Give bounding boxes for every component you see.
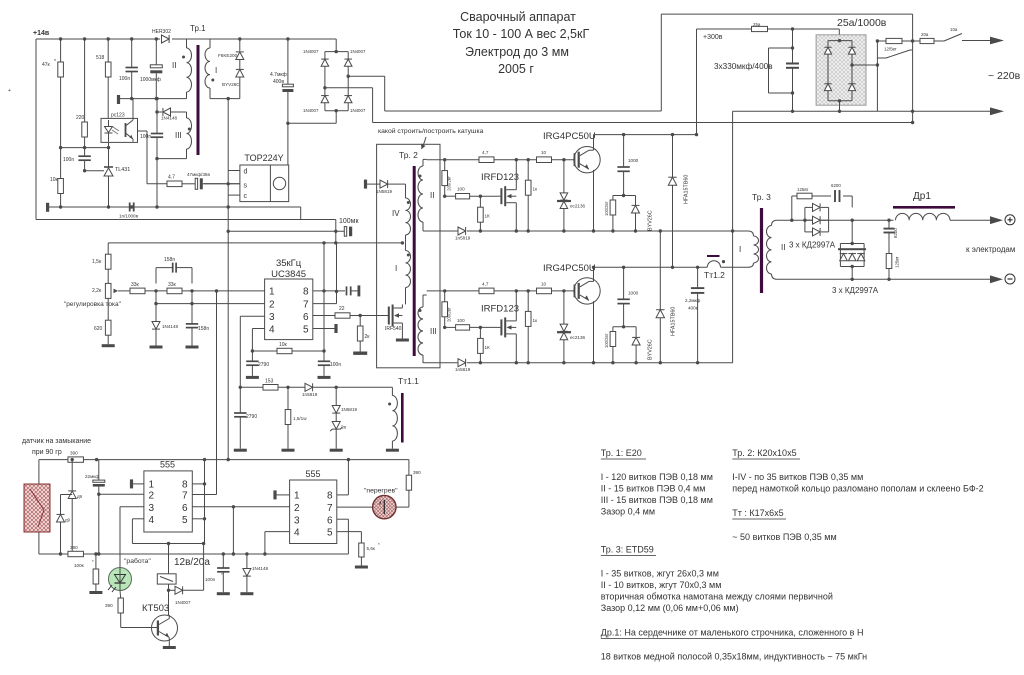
diode F6KE200 <box>218 52 244 60</box>
capacitor 330мкф plates <box>786 64 799 68</box>
inductor Др1 <box>896 213 951 220</box>
capacitor 100n 555 <box>205 568 230 582</box>
svg-text:400в: 400в <box>688 306 699 311</box>
svg-text:1n5819: 1n5819 <box>455 367 471 372</box>
ground 620 <box>102 344 115 347</box>
wire out filter <box>888 220 890 279</box>
winding Tp.2 I <box>395 243 411 305</box>
diode КД2997А 2b <box>848 254 856 261</box>
resistor 390 rail2 <box>68 545 84 557</box>
relay coil <box>157 574 176 584</box>
capacitor 100n timing <box>318 361 342 368</box>
resistor 125вт out2 <box>886 254 899 269</box>
svg-text:20а: 20а <box>921 32 929 37</box>
wire 100nt leads <box>323 351 325 376</box>
wire bridge dc minus <box>838 101 841 113</box>
resistor 200/2вт 1 <box>442 171 452 191</box>
MOSFET IRFD123 2 <box>497 317 516 337</box>
label Др1 <box>913 191 931 202</box>
capacitor 100мк <box>339 218 359 236</box>
wire LED leads <box>119 568 121 591</box>
diode HFA15TB60 a <box>668 175 689 204</box>
svg-text:25а: 25а <box>753 22 761 27</box>
bridge diode BR <box>848 84 855 91</box>
capacitor 158n b <box>186 324 210 332</box>
svg-text:Тр.1: Тр.1 <box>190 24 206 33</box>
svg-text:*: * <box>378 542 380 547</box>
svg-text:Тр. 2: Тр. 2 <box>399 150 418 160</box>
wire 1K leads 2 <box>479 327 482 364</box>
wire stage2 rail <box>423 361 733 364</box>
IC 555 a box <box>144 471 192 532</box>
resistor 518 <box>96 55 111 77</box>
svg-text:"перегрев": "перегрев" <box>364 488 398 495</box>
diode 1N4007 TR <box>344 49 366 66</box>
svg-text:400в: 400в <box>273 79 284 85</box>
svg-text:TOP224Y: TOP224Y <box>244 153 283 163</box>
wire 555a pin7 <box>192 494 216 496</box>
pin numbers UC3845 left <box>269 287 275 336</box>
bridge diode TR <box>848 47 855 54</box>
resistor 1.5/1w <box>285 410 307 425</box>
svg-text:IRFD123: IRFD123 <box>481 303 519 314</box>
diode КД2997А 1a <box>813 203 821 211</box>
wire sensor leads <box>38 460 40 554</box>
diode КД2997А 1b <box>813 216 821 224</box>
wire out plus <box>777 219 894 222</box>
ground IRF540 <box>396 339 409 342</box>
wire +300 <box>697 27 840 40</box>
bridge 25а box <box>816 35 866 105</box>
svg-text:555: 555 <box>160 460 175 470</box>
winding Tp.3 II <box>767 220 786 279</box>
wire 12/5 leads <box>877 39 914 42</box>
wire 14v drop <box>335 220 337 232</box>
resistor 200/2вт 2 <box>442 302 452 322</box>
wire tvs leads 1 <box>562 160 565 233</box>
wire gate rail 1 <box>427 158 575 161</box>
wire +14в top rail <box>36 38 336 40</box>
wire vref rail <box>108 241 404 244</box>
resistor 4.7 <box>167 175 182 187</box>
svg-text:1N4148: 1N4148 <box>252 566 269 571</box>
svg-text:3: 3 <box>294 515 300 526</box>
wire snubber <box>792 196 852 220</box>
wire top loop <box>661 14 912 122</box>
bridge internal wires <box>828 39 854 103</box>
wire opto collector <box>133 99 147 184</box>
wire 100n555 leads <box>222 554 224 592</box>
svg-text:+: + <box>8 88 11 94</box>
svg-text:100: 100 <box>457 318 465 323</box>
IGBT IRG4PC50U 2 <box>574 278 601 304</box>
wire 555a pin3 <box>120 507 144 568</box>
label при 90 гр <box>32 449 62 456</box>
svg-text:22: 22 <box>339 306 345 312</box>
svg-text:1: 1 <box>149 480 155 491</box>
svg-text:2790: 2790 <box>246 414 257 420</box>
svg-text:1n5819: 1n5819 <box>455 236 471 241</box>
svg-text:35кГц: 35кГц <box>276 258 302 269</box>
svg-text:I - 120 витков ПЭВ 0,18 мм: I - 120 витков ПЭВ 0,18 мм <box>601 472 713 482</box>
diode BYV26C top <box>222 69 244 87</box>
svg-text:47к: 47к <box>42 62 51 68</box>
svg-text:II - 10 витков, жгут 70х0,3 мм: II - 10 витков, жгут 70х0,3 мм <box>601 580 722 590</box>
capacitor 1n/1000в <box>119 203 139 219</box>
svg-text:5: 5 <box>182 515 188 526</box>
bar pin1 555b <box>273 490 289 499</box>
wire TL431 leads <box>107 148 110 209</box>
wire tp2 diode <box>366 183 403 185</box>
label +300в <box>703 34 723 41</box>
label 25а/1000в <box>837 17 887 29</box>
svg-text:1000: 1000 <box>628 291 639 296</box>
label TOP224Y <box>244 153 283 163</box>
bridge diode BL <box>824 84 831 91</box>
capacitor 100n vref <box>347 285 361 296</box>
note Тр.3 header <box>601 545 656 556</box>
wire rail to bridge <box>335 39 338 53</box>
pin numbers UC3845 right <box>303 287 309 336</box>
resistor 1К 1 <box>478 207 490 222</box>
rectifier block2 frame <box>838 244 866 267</box>
bar pin5 <box>334 324 337 333</box>
svg-text:158n: 158n <box>198 326 209 332</box>
wire fuse20 leads <box>913 40 944 42</box>
label Тт1.2 <box>704 270 725 280</box>
svg-text:10к: 10к <box>279 342 288 348</box>
wire byv a leads <box>634 196 637 233</box>
svg-text:153: 153 <box>265 379 274 385</box>
svg-text:1N4007: 1N4007 <box>303 49 319 54</box>
wire 100 leads 2 <box>445 326 497 329</box>
label к электродам <box>966 245 1015 254</box>
svg-text:1000: 1000 <box>628 158 639 163</box>
svg-text:3 х КД2997А: 3 х КД2997А <box>832 286 879 295</box>
diode КД2997А 2a <box>840 254 848 261</box>
svg-text:1N4007: 1N4007 <box>350 108 366 113</box>
label перегрев <box>364 488 398 495</box>
note dr1 line1 <box>601 652 867 662</box>
svg-text:2в: 2в <box>341 425 347 430</box>
wire 1.5k leads <box>107 243 109 283</box>
relay bypass contact <box>877 50 912 58</box>
svg-text:Тр. 2: К20х10х5: Тр. 2: К20х10х5 <box>732 448 796 458</box>
svg-text:Др1: Др1 <box>913 191 931 202</box>
capacitor 8200 <box>884 228 899 238</box>
label КТ503 <box>142 603 169 614</box>
wire 2.2мкф leads <box>697 267 699 362</box>
svg-text:1,5к: 1,5к <box>92 259 102 265</box>
svg-text:Тр. 3: Тр. 3 <box>752 192 771 202</box>
svg-text:5,6к: 5,6к <box>367 546 376 551</box>
label IRFD123 2 <box>481 303 519 314</box>
box Tp.2 <box>377 144 440 367</box>
svg-text:КТ503: КТ503 <box>142 603 169 614</box>
wire 100w b leads <box>611 327 614 365</box>
svg-text:I: I <box>395 264 397 273</box>
svg-text:IRF540: IRF540 <box>385 326 402 332</box>
capacitor 4.7мкф 400в <box>270 72 293 92</box>
wire gnd corner <box>300 207 302 220</box>
wire fb node <box>155 97 186 209</box>
MOSFET IRFD123 1 <box>497 186 516 206</box>
resistor 4.7 2 <box>479 281 494 293</box>
note Тр.1 header <box>601 448 646 459</box>
ground bar aux2 <box>46 203 49 212</box>
wire IRF540 source <box>401 323 403 339</box>
wire d9b leads <box>59 495 72 556</box>
svg-text:*: * <box>221 572 223 577</box>
wire s branch <box>147 183 240 185</box>
note tt line1 <box>732 532 836 542</box>
svg-text:100: 100 <box>457 187 465 192</box>
wire 555a pin6 <box>192 505 289 508</box>
wire 555b pin8 <box>337 460 349 495</box>
svg-text:6: 6 <box>182 503 188 514</box>
wire led res leads <box>120 591 158 628</box>
wire 1k gate leads 2 <box>527 291 530 365</box>
wire bridge4007 bottom <box>335 111 337 124</box>
ground 2790 a <box>246 376 259 379</box>
wire bridge4007 out2 <box>325 88 373 123</box>
svg-text:6: 6 <box>303 312 309 323</box>
wire 100n div leads <box>83 148 86 173</box>
svg-text:s: s <box>244 182 248 189</box>
bridge diode TL <box>824 47 831 54</box>
svg-text:датчик на замыкание: датчик на замыкание <box>22 438 91 445</box>
svg-text:200/2вт: 200/2вт <box>447 176 452 191</box>
wire s-c ground <box>227 171 230 209</box>
resistor 100 2 <box>456 318 470 330</box>
svg-text:7: 7 <box>303 299 309 310</box>
svg-text:BYV26C: BYV26C <box>648 339 654 360</box>
svg-text:18 витков медной полосой 0,35х: 18 витков медной полосой 0,35х18мм, инду… <box>601 652 867 662</box>
resistor 2к <box>357 326 370 341</box>
svg-text:2,2к: 2,2к <box>92 288 102 294</box>
Тт1.1 core <box>401 393 404 443</box>
svg-text:HFA15TB60: HFA15TB60 <box>684 175 690 204</box>
wire 1000b leads <box>622 267 625 328</box>
svg-text:5: 5 <box>327 528 333 539</box>
resistor 10 1 <box>537 150 552 162</box>
resistor 390 led <box>105 598 123 613</box>
TVS ec2136 1 <box>557 193 586 209</box>
wire pin4 net <box>251 329 265 353</box>
svg-text:100/2вт: 100/2вт <box>604 333 609 348</box>
bar 1N5819 stub <box>364 180 367 189</box>
resistor 620 <box>94 320 111 335</box>
wire bridge4007 out1 <box>348 76 385 111</box>
svg-text:д9: д9 <box>65 518 71 523</box>
svg-text:1: 1 <box>294 491 300 502</box>
resistor 22 <box>335 306 350 318</box>
pin numbers 555a left <box>149 480 155 527</box>
svg-text:*: * <box>92 559 94 564</box>
capacitor 47мкф/35в <box>187 172 210 189</box>
svg-text:100мк: 100мк <box>339 218 359 225</box>
wire 555b pin6 <box>337 519 349 554</box>
wire 158n b leads <box>191 291 193 346</box>
svg-text:II: II <box>781 243 785 252</box>
wire cap100n link <box>351 290 358 292</box>
label UC3845 <box>271 269 306 280</box>
capacitor 100n <box>119 68 138 83</box>
svg-text:25а/1000в: 25а/1000в <box>837 17 887 29</box>
wire fb diode <box>157 111 187 113</box>
note tr3 line3 <box>601 592 833 602</box>
svg-text:Ток 10 - 100 А вес 2,5кГ: Ток 10 - 100 А вес 2,5кГ <box>453 27 590 41</box>
label работа <box>124 557 151 565</box>
svg-text:II: II <box>430 191 434 200</box>
wire pin5 stub <box>313 328 335 330</box>
svg-text:1N4148: 1N4148 <box>161 116 178 121</box>
ground 5,6к <box>355 566 368 569</box>
svg-text:~ 220в: ~ 220в <box>988 70 1021 82</box>
label +14в <box>33 30 50 37</box>
svg-text:10: 10 <box>541 150 547 155</box>
arrow plus <box>990 216 1003 224</box>
capacitor 2790 b <box>234 413 257 420</box>
wire KT503 collector <box>168 615 170 619</box>
wire 220 leads <box>83 39 86 149</box>
svg-text:220: 220 <box>76 115 85 121</box>
wire KT503 emitter <box>168 638 170 647</box>
diode КД2997А 1c <box>813 228 821 236</box>
diode 1N5819 tp2 <box>376 180 393 194</box>
diode BYV26C b <box>632 337 653 360</box>
svg-text:100n: 100n <box>63 157 74 163</box>
svg-text:390: 390 <box>70 545 78 550</box>
svg-text:F6KE200: F6KE200 <box>218 53 238 58</box>
svg-text:1,5/1w: 1,5/1w <box>293 416 307 421</box>
opto LED <box>105 120 120 142</box>
rectifier block1 frame <box>805 207 829 232</box>
ground 1N4148 <box>150 346 163 349</box>
note tr1 line1 <box>601 472 713 482</box>
wire pin6 drop <box>232 507 234 554</box>
wire out minus <box>777 278 990 281</box>
wire rect2 down <box>851 242 854 279</box>
winding Tp.3 I <box>739 231 759 267</box>
wire 100к leads <box>95 554 97 591</box>
arrow minus <box>990 275 1003 283</box>
IC 555 b box <box>290 480 337 544</box>
wire 22 to gate <box>350 314 388 317</box>
svg-text:100/2вт: 100/2вт <box>604 201 609 216</box>
diode HFA15TB60 b <box>656 307 676 336</box>
wire 555a pin2 <box>99 493 144 495</box>
svg-text:III - 15 витков ПЭВ 0,18 мм: III - 15 витков ПЭВ 0,18 мм <box>601 495 713 505</box>
wire 100w a leads <box>611 196 614 233</box>
svg-text:5: 5 <box>303 324 309 335</box>
svg-text:12/5вт: 12/5вт <box>884 47 897 52</box>
svg-text:6: 6 <box>327 515 333 526</box>
svg-text:518: 518 <box>96 55 105 61</box>
title text line 2 <box>453 27 590 41</box>
svg-text:какой строить/построить кату: какой строить/построить катушка <box>378 127 484 135</box>
svg-text:620: 620 <box>94 326 103 332</box>
svg-text:~ 50 витков ПЭВ 0,35 мм: ~ 50 витков ПЭВ 0,35 мм <box>732 532 836 542</box>
svg-text:12в/20а: 12в/20а <box>174 557 210 568</box>
thermistor перегрев <box>373 495 396 518</box>
wire vref to rc <box>323 291 325 351</box>
wire 10к leads <box>59 148 62 209</box>
svg-text:100n: 100n <box>119 76 130 82</box>
svg-text:Зазор 0,4 мм: Зазор 0,4 мм <box>601 507 655 517</box>
note tr2 line2 <box>732 484 983 494</box>
svg-text:d: d <box>244 169 248 176</box>
resistor 4.7 1 <box>479 150 494 162</box>
wire snub node b <box>613 326 636 328</box>
svg-text:1N4007: 1N4007 <box>303 108 319 113</box>
ground 100n 555 <box>217 592 230 595</box>
note tr1 line2 <box>601 484 706 494</box>
inductor Др1 core <box>893 206 955 209</box>
wire IRF540 drain <box>401 304 403 308</box>
resistor 47к* <box>42 59 63 77</box>
IGBT IRG4PC50U 1 <box>574 147 601 173</box>
svg-text:2: 2 <box>269 299 275 310</box>
note tr3 line2 <box>601 580 722 590</box>
wire 2790a leads <box>251 351 253 376</box>
resistor 1к gate 1 <box>525 180 538 195</box>
capacitor 22мкф <box>85 474 105 487</box>
wire 555a vcc riser <box>204 460 206 544</box>
transformer Tp.3 core <box>760 208 763 293</box>
svg-text:10а: 10а <box>950 27 958 32</box>
svg-text:4.7мкф: 4.7мкф <box>270 72 287 78</box>
diode д9 a <box>68 491 82 499</box>
wire 555 top rail <box>39 458 409 461</box>
wire IRFD drain 1 <box>515 160 517 190</box>
note tr2 line1 <box>732 472 863 482</box>
diode 1N5819 clamp <box>332 406 357 414</box>
diode 1N4007 BR <box>344 96 366 113</box>
svg-text:1000мкф: 1000мкф <box>140 77 161 83</box>
svg-text:ес2136: ес2136 <box>570 335 586 340</box>
svg-text:IRG4PC50U: IRG4PC50U <box>543 263 596 274</box>
current transformer Тт1.1 winding <box>388 387 397 448</box>
svg-text:100n: 100n <box>205 577 216 582</box>
diode 1N4007 relay <box>167 586 191 605</box>
wire 555b pin5 <box>337 532 362 543</box>
opto transistor <box>126 118 134 141</box>
svg-text:I - 35 витков, жгут 26х0,3 мм: I - 35 витков, жгут 26х0,3 мм <box>601 569 719 579</box>
svg-text:2: 2 <box>149 490 155 501</box>
wire d riser <box>227 99 229 171</box>
capacitor 1000 a <box>617 158 638 171</box>
transformer Tp.1 core <box>197 45 200 155</box>
ground 100к <box>89 591 102 594</box>
svg-text:IV: IV <box>392 209 400 218</box>
wire 1K leads 1 <box>479 196 482 233</box>
wire mains lower left <box>385 110 662 112</box>
wire pin7 stub <box>313 303 337 305</box>
label 12в/20а <box>174 557 210 568</box>
svg-text:6200: 6200 <box>831 183 841 188</box>
wire 1n4148-555 leads <box>246 554 248 592</box>
label IRFD123 1 <box>481 172 519 183</box>
label датчик <box>22 438 91 445</box>
wire 1n4148 leads <box>155 304 157 346</box>
wire 555a pin4 <box>132 519 205 545</box>
arrow mains top <box>990 37 1004 45</box>
diode 1N4148 comp <box>152 322 179 330</box>
capacitor 100n divider <box>63 156 91 163</box>
diode 1N4007 BL <box>303 96 329 113</box>
svg-text:TL431: TL431 <box>115 167 130 173</box>
